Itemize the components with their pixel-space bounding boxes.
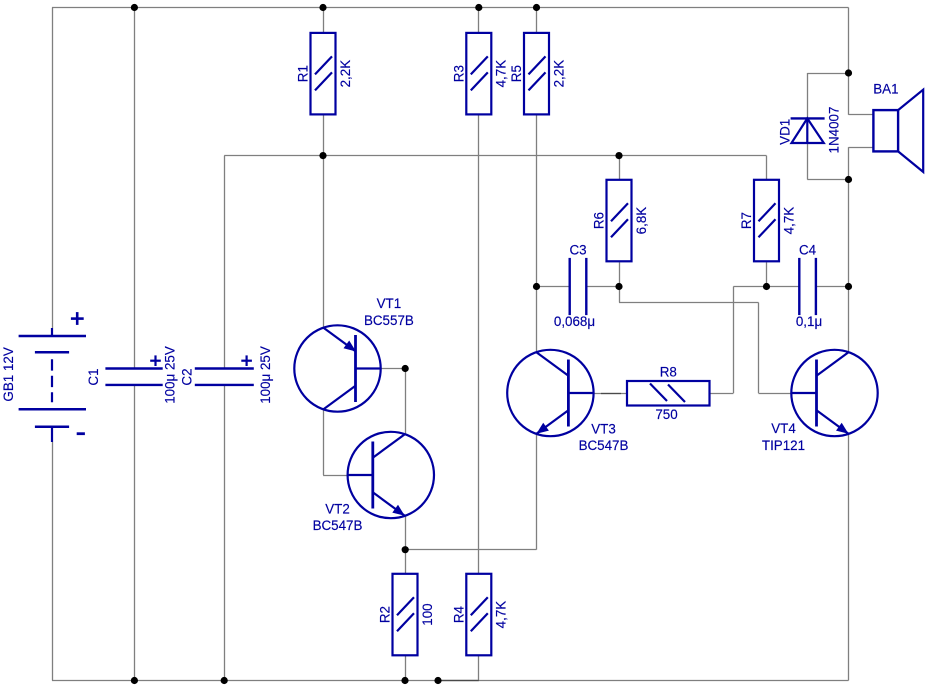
wire VD1 bottom link: [807, 143, 848, 180]
node top rail / R5: [533, 4, 540, 11]
node C4 row / R7: [763, 283, 770, 290]
wire R6 top lead: [619, 156, 621, 180]
wire C1 branch lower: [134, 385, 136, 681]
wire left rail lower (battery -): [52, 442, 54, 681]
transistor VT3 BC547B (NPN, mirrored): [507, 350, 628, 453]
wire VT4 emitter to ground: [848, 433, 850, 680]
svg-text:R1: R1: [296, 65, 311, 82]
svg-text:GB1 12V: GB1 12V: [1, 347, 16, 401]
wire speaker bottom return: [849, 147, 874, 179]
svg-text:BA1: BA1: [873, 81, 898, 96]
transistor VT4 TIP121 (NPN): [762, 350, 878, 453]
wire VT3 base overlap dark: [601, 393, 621, 395]
wire R2 top lead: [405, 550, 407, 574]
node VD1 bottom / speaker: [845, 176, 852, 183]
wire bottom ground rail: [52, 680, 849, 682]
svg-text:R5: R5: [509, 65, 524, 82]
wire mid row to R7 top: [224, 156, 766, 180]
svg-text:2,2K: 2,2K: [338, 60, 353, 88]
wire speaker top feed: [849, 73, 874, 115]
node ground / C1: [131, 677, 138, 684]
svg-text:4,7K: 4,7K: [494, 601, 509, 629]
node C3 row / R6: [615, 283, 622, 290]
svg-text:VD1: VD1: [777, 119, 792, 145]
speaker BA1: [873, 81, 923, 171]
node VD1 top / speaker: [845, 69, 852, 76]
wire VT3 base to R8: [594, 393, 627, 395]
svg-text:BC547B: BC547B: [579, 438, 629, 453]
svg-text:1N4007: 1N4007: [827, 107, 842, 154]
wire R7 node to R8 right: [710, 287, 767, 394]
wire R4 bottom lead: [438, 656, 479, 681]
svg-text:BC547B: BC547B: [313, 518, 363, 533]
capacitor C4 0,1u: [796, 243, 822, 329]
wire R7 bottom lead: [766, 262, 768, 286]
svg-text:R6: R6: [592, 212, 607, 229]
node VT1 base / VT2 collector: [402, 365, 409, 372]
wire R2 bottom lead: [405, 656, 407, 681]
node top rail / R1: [319, 4, 326, 11]
node ground / R2: [401, 677, 408, 684]
svg-text:6,8K: 6,8K: [634, 207, 649, 235]
wire VT2 emitter stub: [405, 515, 407, 549]
capacitor C2 100u 25V: [180, 346, 273, 404]
svg-text:VT2: VT2: [325, 502, 350, 517]
wire C4 row right: [816, 286, 849, 288]
node mid row / R1-VT1: [319, 152, 326, 159]
svg-text:0,068μ: 0,068μ: [554, 314, 595, 329]
resistor R1 2,2K: [296, 33, 353, 115]
wire R4 ground overlap dark: [438, 680, 479, 682]
battery GB1 12V: [1, 312, 86, 442]
svg-text:VT3: VT3: [591, 422, 616, 437]
svg-text:C4: C4: [799, 243, 817, 258]
svg-text:BC557B: BC557B: [364, 313, 414, 328]
resistor R7 4,7K: [739, 180, 796, 261]
svg-text:100: 100: [420, 603, 435, 625]
node mid row / R6: [615, 152, 622, 159]
svg-text:100μ 25V: 100μ 25V: [258, 346, 273, 404]
wire VT1 collector to VT2 base: [323, 409, 348, 475]
wire R1 top stem: [323, 8, 325, 33]
wire VT3 emitter to VT2 emitter: [405, 433, 536, 549]
node top rail / R3: [475, 4, 482, 11]
wire C2 branch upper: [224, 156, 226, 369]
transistor VT2 BC547B (NPN): [313, 432, 434, 533]
svg-text:R8: R8: [660, 365, 677, 380]
node ground / R4: [434, 677, 441, 684]
svg-text:VT4: VT4: [771, 421, 796, 436]
wire R3 bottom to R4 top: [478, 114, 480, 573]
resistor R5 2,2K: [509, 33, 566, 115]
wire R3 top stem: [478, 8, 480, 33]
wire R1 bottom to VT1 emitter: [323, 114, 325, 328]
svg-text:R3: R3: [451, 65, 466, 82]
resistor R6 6,8K: [592, 180, 649, 261]
wire R5 bottom to VT3 collector: [536, 114, 538, 352]
resistor R3 4,7K: [451, 33, 508, 115]
resistor R4 4,7K: [451, 574, 508, 656]
wire VD1 top link: [807, 73, 848, 118]
svg-text:100μ 25V: 100μ 25V: [163, 346, 178, 404]
wire R6 node to VT4 base: [619, 287, 791, 394]
wire C1 branch upper: [134, 8, 136, 369]
resistor R8 750: [627, 365, 710, 423]
wire C3 row left: [537, 286, 570, 288]
svg-text:R4: R4: [451, 605, 466, 623]
wire right column middle: [848, 180, 850, 353]
wire left rail upper (battery +): [52, 8, 54, 329]
wire VT1 base to VT2 collector: [381, 369, 406, 435]
wire R6 bottom lead: [619, 262, 621, 286]
svg-text:750: 750: [655, 407, 677, 422]
node VT2 emitter / R2: [402, 546, 409, 553]
capacitor C1 100u 25V: [86, 346, 177, 404]
svg-text:C3: C3: [569, 243, 586, 258]
node ground / C2: [221, 677, 228, 684]
svg-text:4,7K: 4,7K: [494, 60, 509, 88]
svg-text:R2: R2: [378, 606, 393, 623]
wire C3 row right: [586, 286, 619, 288]
transistor VT1 BC557B (PNP): [294, 296, 414, 412]
wire R5 top stem: [536, 8, 538, 33]
resistor R2 100: [378, 574, 435, 656]
diode VD1 1N4007: [777, 107, 841, 154]
node C3 row / R5-VT3: [533, 283, 540, 290]
wire right column top: [848, 8, 850, 74]
node C4 row / right column: [845, 283, 852, 290]
svg-text:C2: C2: [180, 368, 195, 385]
svg-text:VT1: VT1: [377, 296, 402, 311]
wire C4 row left: [767, 286, 800, 288]
node top rail / C1: [131, 4, 138, 11]
svg-text:TIP121: TIP121: [762, 438, 805, 453]
capacitor C3 0,068u: [554, 243, 595, 329]
svg-text:4,7K: 4,7K: [781, 207, 796, 235]
wire C2 branch lower: [224, 385, 226, 681]
wire top power rail: [52, 7, 849, 9]
svg-text:R7: R7: [739, 212, 754, 229]
svg-text:0,1μ: 0,1μ: [796, 314, 822, 329]
svg-text:2,2K: 2,2K: [551, 60, 566, 88]
svg-text:C1: C1: [86, 368, 101, 385]
